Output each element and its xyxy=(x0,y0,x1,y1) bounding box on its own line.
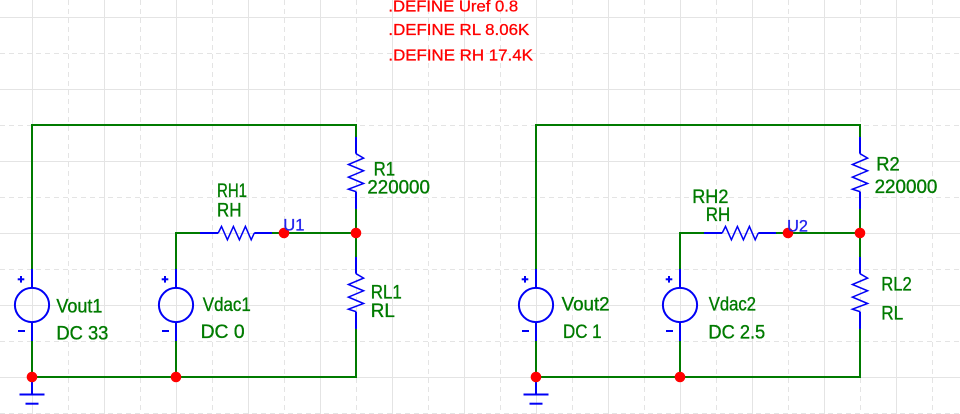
svg-text:RH: RH xyxy=(217,200,242,221)
svg-text:Vout1: Vout1 xyxy=(56,297,102,318)
svg-text:RL2: RL2 xyxy=(881,274,912,295)
svg-text:.DEFINE RL 8.06K: .DEFINE RL 8.06K xyxy=(388,22,529,39)
svg-text:Vout2: Vout2 xyxy=(562,294,610,315)
svg-text:RH: RH xyxy=(706,205,731,226)
svg-text:Vdac2: Vdac2 xyxy=(709,294,756,315)
svg-text:.DEFINE Uref 0.8: .DEFINE Uref 0.8 xyxy=(388,0,518,16)
svg-text:RH1: RH1 xyxy=(217,181,247,202)
svg-text:DC 33: DC 33 xyxy=(56,323,108,344)
svg-text:DC 0: DC 0 xyxy=(201,322,245,343)
svg-text:RL: RL xyxy=(881,303,903,324)
svg-text:R2: R2 xyxy=(876,155,900,176)
svg-text:220000: 220000 xyxy=(875,177,938,198)
svg-text:RL: RL xyxy=(371,301,395,322)
svg-text:DC 2.5: DC 2.5 xyxy=(708,323,765,344)
svg-text:220000: 220000 xyxy=(367,178,430,199)
svg-text:DC 1: DC 1 xyxy=(563,322,602,343)
svg-text:U2: U2 xyxy=(787,217,808,236)
svg-text:Vdac1: Vdac1 xyxy=(203,295,251,316)
svg-text:.DEFINE RH 17.4K: .DEFINE RH 17.4K xyxy=(388,47,533,64)
svg-text:U1: U1 xyxy=(283,216,304,235)
